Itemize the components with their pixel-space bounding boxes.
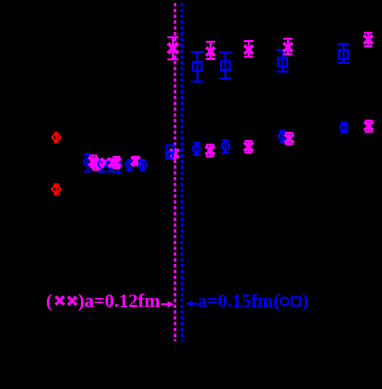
top row: magenta X3 [283,39,293,54]
left cluster: magenta X c3 [108,158,118,168]
middle row: blue circle Cm4 [340,123,347,133]
middle row: blue circle Cm3 [279,131,286,142]
top row: blue square S1 [191,52,204,82]
left cluster: magenta X c0 [90,158,100,168]
svg-text:(: ( [46,291,52,312]
left cluster: magenta X c1 [95,159,105,169]
top row: magenta X4 [363,33,373,46]
middle row: magenta Xm2 [244,141,254,153]
left cluster: magenta X b with bottom cap [92,159,102,170]
red diamond point 1 (experiment upper) [52,133,61,142]
left cluster: blue circle C4 with error bar [114,158,121,172]
middle row: magenta Xm3 [284,133,294,144]
middle row: magenta Xm4 [364,121,374,132]
svg-text:)a=0.12fm: )a=0.12fm [78,291,160,312]
on-line cluster: blue square [167,145,174,152]
dashed vertical line a=0.15fm (blue) [181,3,184,341]
left cluster: magenta X a with top cap [89,155,99,167]
label (xx)a=0.12fm with arrow (magenta) [46,291,174,312]
top magenta X on line with error bar [167,37,178,59]
left cluster: blue circle C6 [139,160,146,170]
left cluster: blue circle C2 with error bar [98,158,105,172]
top row: magenta X2 [244,41,254,57]
left cluster: magenta X d with caps [112,157,122,168]
middle row: blue circle Cm2 [222,140,229,152]
red diamond point 2 (experiment lower) [52,184,61,194]
svg-text:): ) [302,291,308,312]
left cluster: blue circle C3 with error bar [107,158,114,172]
dashed vertical line a=0.12fm (magenta) [174,3,177,341]
on-line cluster: blue circle [166,151,173,160]
top row: magenta X1 [206,42,216,59]
left cluster: magenta X c [100,158,110,168]
top row: blue square S2 [219,52,232,78]
top row: blue square S4 [338,44,350,63]
on-line cluster: magenta X [168,149,179,159]
top row: blue square S3 [277,50,289,72]
left cluster: blue circle C1 with error bar [84,155,91,172]
label a=0.15fm(ob) with arrow (blue) [186,291,308,312]
svg-text:a=0.15fm(: a=0.15fm( [198,291,280,312]
left cluster: magenta X e [131,156,141,166]
middle row: blue circle Cm1 [193,143,200,155]
middle row: magenta Xm1 [205,145,215,157]
left cluster: blue circle C5 [126,160,133,170]
